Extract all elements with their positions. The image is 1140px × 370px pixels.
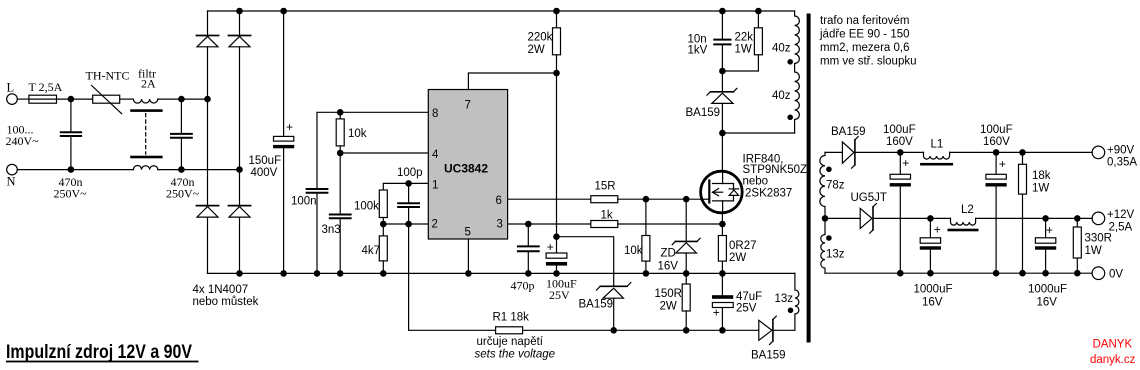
resistor 100k — [379, 190, 387, 224]
svg-text:mm2, mezera 0,6: mm2, mezera 0,6 — [820, 42, 909, 54]
svg-text:N: N — [7, 175, 16, 189]
svg-text:150uF: 150uF — [249, 155, 282, 167]
node +12V terminal — [1092, 212, 1105, 225]
junction 100p pin1 — [405, 180, 412, 187]
junction pin7-220k — [553, 70, 560, 77]
wire pin7 — [468, 73, 556, 90]
junction N-bridge — [236, 166, 243, 173]
node N terminal — [7, 164, 18, 175]
svg-text:100p: 100p — [397, 167, 423, 179]
svg-text:DANYK: DANYK — [1093, 339, 1133, 351]
transistor Q1 IRF840 — [701, 171, 743, 213]
svg-text:L1: L1 — [931, 139, 944, 151]
wire pin5 — [467, 239, 469, 273]
svg-text:150R: 150R — [655, 288, 683, 300]
resistor 10k (gate-gnd) — [642, 199, 650, 273]
svg-text:250V~: 250V~ — [54, 187, 88, 201]
wire L1 to +90V terminal — [950, 151, 1093, 153]
capacitor 100n — [307, 189, 328, 273]
svg-text:BA159: BA159 — [831, 126, 866, 138]
junction top 470n2 — [178, 96, 185, 103]
wire 13z junction to UG5JT — [825, 217, 860, 219]
polarity dot 40z lower — [787, 115, 793, 121]
resistor 15R (gate) — [591, 196, 701, 203]
svg-text:danyk.cz: danyk.cz — [1090, 354, 1136, 366]
junction 100p-fb — [405, 221, 412, 228]
aux winding 13z — [795, 273, 799, 330]
svg-text:určuje napětí: určuje napětí — [477, 336, 544, 348]
junction rail dots — [236, 8, 287, 277]
capacitor 470p — [518, 224, 539, 273]
polarity dot 78z — [826, 167, 832, 173]
svg-text:2,5A: 2,5A — [1109, 222, 1133, 234]
svg-text:15R: 15R — [595, 181, 616, 193]
svg-text:0V: 0V — [1109, 269, 1123, 281]
junction 470p top — [525, 221, 532, 228]
svg-text:mm ve stř. sloupku: mm ve stř. sloupku — [820, 56, 917, 68]
junction 10k gnd — [643, 270, 650, 277]
resistor 4k7 — [379, 224, 387, 273]
junction 1000uF#2 top — [1042, 215, 1049, 222]
junction source-1k — [719, 221, 726, 228]
svg-text:T 2,5A: T 2,5A — [29, 80, 63, 94]
svg-text:22k: 22k — [735, 32, 754, 44]
svg-text:470p: 470p — [511, 279, 535, 293]
polarity dot 40z upper — [787, 59, 793, 65]
diode BA159 (13z rectifier) — [759, 316, 795, 344]
diode D4 (bridge bottom-right) — [229, 170, 251, 274]
svg-text:2SK2837: 2SK2837 — [745, 188, 792, 200]
junction 3n3 top — [337, 150, 344, 157]
polarity dot sec 13z — [826, 235, 832, 241]
svg-text:BA159: BA159 — [751, 350, 786, 362]
svg-text:160V: 160V — [886, 136, 913, 148]
svg-text:8: 8 — [432, 108, 438, 120]
junction 0V dots — [897, 270, 1081, 277]
svg-text:4x 1N4007: 4x 1N4007 — [193, 284, 249, 296]
choke core dashed link — [145, 114, 147, 155]
svg-text:7: 7 — [465, 100, 471, 112]
junction 10n top rail — [719, 8, 726, 15]
svg-text:78z: 78z — [826, 180, 845, 192]
wire drain — [721, 133, 723, 172]
wire 0V rail — [825, 272, 1092, 274]
capacitor 1000uF 16V #2 — [1035, 218, 1056, 273]
wire Vcc vertical — [556, 73, 558, 253]
svg-text:1000uF: 1000uF — [914, 284, 953, 296]
junction N-470n — [68, 166, 75, 173]
transformer core — [807, 14, 811, 343]
svg-text:47uF: 47uF — [736, 291, 762, 303]
junction 22k top rail — [755, 8, 762, 15]
polarity dot aux 13z — [788, 308, 794, 314]
svg-text:+: + — [1046, 223, 1053, 237]
diode UG5JT (12V rectifier) — [860, 204, 876, 234]
svg-text:400V: 400V — [251, 167, 278, 179]
wire pin8 line — [317, 112, 428, 189]
junction 100k-4k7 — [380, 221, 387, 228]
junction 220k top rail — [553, 8, 560, 15]
junction 1000uF#1 top — [927, 215, 934, 222]
junction gate-ZD — [683, 196, 690, 203]
svg-text:+: + — [902, 156, 909, 170]
svg-text:40z: 40z — [772, 90, 791, 102]
junction bottom 470n2 — [178, 166, 185, 173]
svg-text:STP9NK50Z: STP9NK50Z — [743, 164, 808, 176]
junction 100uF#2 top — [993, 149, 1000, 156]
inductor L1 — [920, 152, 953, 165]
svg-text:1: 1 — [432, 180, 438, 192]
choke core bars — [130, 109, 162, 158]
junction snubber node — [719, 68, 726, 75]
svg-text:4: 4 — [432, 149, 439, 161]
svg-text:10k: 10k — [348, 128, 367, 140]
wire top rail — [208, 10, 795, 12]
svg-text:1W: 1W — [735, 44, 752, 56]
svg-text:1kV: 1kV — [688, 45, 708, 57]
junction L-bridge — [204, 96, 211, 103]
junction 4k7 gnd — [380, 270, 387, 277]
wire choke to node — [158, 98, 208, 100]
junction 78z-13z — [822, 215, 829, 222]
svg-text:+: + — [286, 120, 293, 134]
resistor R1 18k (feedback) — [409, 327, 759, 334]
wire feedback drop (pin2 to R1) — [408, 224, 410, 330]
svg-text:100k: 100k — [354, 201, 379, 213]
wire L2 to +12V terminal — [976, 217, 1093, 219]
junction drain node — [719, 130, 726, 137]
capacitor 470n #2 — [171, 99, 192, 170]
capacitor 3n3 — [330, 153, 351, 273]
wire drain to primary — [722, 132, 794, 134]
capacitor 100uF 160V #2 — [986, 152, 1007, 273]
IC U1 UC3842 body — [428, 90, 507, 240]
svg-text:3: 3 — [497, 219, 503, 231]
junction Vcc node — [553, 233, 560, 240]
wire pin4 line — [340, 152, 428, 154]
snubber capacitor 10n 1kV — [714, 11, 730, 71]
svg-text:sets the voltage: sets the voltage — [475, 349, 556, 361]
svg-text:160V: 160V — [983, 136, 1010, 148]
junction pin5 gnd — [465, 270, 472, 277]
resistor 150R 2W — [682, 273, 690, 330]
junction 470p gnd — [525, 270, 532, 277]
capacitor 100uF 160V #1 — [890, 152, 911, 273]
junction gate-10k — [643, 196, 650, 203]
secondary winding 13z — [821, 218, 825, 273]
wire +12V line — [873, 217, 951, 219]
svg-text:3n3: 3n3 — [322, 224, 341, 236]
diode BA159 (snubber clamp) — [707, 71, 737, 133]
resistor 10k (Vref divider) — [336, 112, 344, 153]
wire +90V line — [855, 151, 924, 153]
capacitor 47uF 25V — [712, 273, 733, 330]
svg-text:1000uF: 1000uF — [1028, 284, 1067, 296]
node +90V terminal — [1092, 146, 1105, 159]
svg-text:240V~: 240V~ — [6, 134, 40, 148]
svg-text:BA159: BA159 — [686, 107, 721, 119]
svg-text:1k: 1k — [601, 210, 613, 222]
svg-text:2W: 2W — [660, 301, 677, 313]
svg-text:+12V: +12V — [1107, 209, 1135, 221]
svg-text:4k7: 4k7 — [362, 245, 381, 257]
wire choke to bridge — [158, 169, 240, 171]
svg-text:2W: 2W — [528, 44, 545, 56]
svg-text:2A: 2A — [141, 77, 156, 91]
diode D3 (bridge bottom-left) — [197, 99, 219, 273]
svg-text:R1 18k: R1 18k — [493, 312, 530, 324]
wire bottom ground rail — [208, 272, 795, 274]
svg-text:16V: 16V — [658, 261, 679, 273]
wire pin3 line — [508, 223, 591, 225]
diode D1 (bridge top-left) — [197, 11, 219, 99]
junction 330R top — [1074, 215, 1081, 222]
svg-text:1W: 1W — [1032, 183, 1049, 195]
primary winding 40z upper — [795, 11, 800, 64]
zener ZD 16V — [672, 199, 700, 273]
diode D2 (bridge top-right) — [229, 11, 251, 170]
svg-text:16V: 16V — [922, 297, 943, 309]
snubber resistor 22k 1W — [722, 11, 762, 71]
wire L to fuse — [17, 98, 29, 100]
svg-text:L: L — [7, 81, 15, 95]
diode BA159 (Vcc rectifier) — [597, 283, 631, 331]
fuse F1 T2,5A — [29, 95, 57, 103]
svg-text:+: + — [934, 223, 941, 237]
svg-text:250V~: 250V~ — [166, 187, 200, 201]
junction 3n3 gnd — [337, 270, 344, 277]
svg-text:100uF: 100uF — [980, 124, 1013, 136]
resistor 220k 2W — [553, 11, 561, 73]
svg-text:UG5JT: UG5JT — [851, 192, 887, 204]
junction 18k top — [1019, 149, 1026, 156]
svg-text:UC3842: UC3842 — [444, 162, 488, 176]
junction ZD gnd — [683, 270, 690, 277]
svg-text:L2: L2 — [961, 204, 974, 216]
capacitor 100uF 25V — [546, 253, 567, 273]
svg-text:5: 5 — [465, 227, 471, 239]
svg-text:+: + — [999, 157, 1006, 171]
svg-text:25V: 25V — [736, 303, 757, 315]
svg-text:+: + — [547, 240, 554, 254]
svg-text:13z: 13z — [826, 249, 845, 261]
wire pin1 line — [383, 183, 428, 190]
junction 47uF fb — [719, 327, 726, 334]
diode BA159 (90V rectifier) — [842, 137, 858, 169]
svg-text:BA159: BA159 — [579, 299, 614, 311]
thermistor TH-NTC — [92, 85, 122, 113]
wire fuse to node — [57, 98, 93, 100]
svg-text:13z: 13z — [775, 293, 794, 305]
svg-text:nebo můstek: nebo můstek — [193, 296, 259, 308]
svg-text:2: 2 — [432, 219, 438, 231]
wire pin6 line — [508, 198, 591, 200]
choke bottom winding — [133, 166, 157, 170]
capacitor C-bulk 150uF 400V — [273, 11, 294, 273]
svg-text:TH-NTC: TH-NTC — [86, 69, 130, 83]
svg-text:jádře EE 90 - 150: jádře EE 90 - 150 — [819, 29, 910, 41]
resistor 1k (CS) — [591, 221, 722, 228]
svg-text:16V: 16V — [1037, 297, 1058, 309]
choke top winding (filtr 2A) — [133, 99, 157, 103]
svg-text:0R27: 0R27 — [729, 240, 757, 252]
wire pin2 line — [383, 223, 428, 225]
node 0V terminal — [1092, 267, 1105, 280]
svg-text:25V: 25V — [549, 288, 570, 302]
wire 78z to diode — [825, 151, 842, 153]
svg-text:+: + — [713, 306, 720, 320]
junction 100n gnd — [314, 270, 321, 277]
wire N to choke — [17, 169, 133, 171]
inductor L2 — [948, 218, 979, 231]
wire source — [721, 212, 723, 235]
junction 150R fb — [683, 327, 690, 334]
svg-text:0,35A: 0,35A — [1107, 157, 1137, 169]
junction 10k top — [337, 109, 344, 116]
svg-text:18k: 18k — [1032, 170, 1051, 182]
resistor 330R 1W — [1073, 218, 1081, 273]
svg-text:ZD: ZD — [661, 248, 676, 260]
svg-text:1W: 1W — [1085, 245, 1102, 257]
junction 100uF#1 top — [897, 149, 904, 156]
secondary winding 78z — [820, 152, 825, 218]
svg-text:2W: 2W — [729, 252, 746, 264]
capacitor 100p — [398, 183, 419, 224]
wire NTC to choke — [120, 98, 134, 100]
svg-text:40z: 40z — [772, 43, 791, 55]
svg-text:100n: 100n — [291, 196, 317, 208]
svg-text:330R: 330R — [1085, 233, 1113, 245]
svg-text:trafo na feritovém: trafo na feritovém — [820, 15, 909, 27]
resistor 0R27 2W — [718, 236, 726, 274]
svg-text:100uF: 100uF — [883, 124, 916, 136]
junction L-470n — [68, 96, 75, 103]
svg-text:+90V: +90V — [1107, 145, 1135, 157]
capacitor 470n #1 — [61, 99, 81, 170]
junction BA159 fb line — [610, 327, 617, 334]
junction 100uF gnd — [553, 270, 560, 277]
wire Vcc to BA159 — [557, 237, 614, 287]
primary winding 40z lower — [795, 64, 800, 134]
svg-text:10k: 10k — [624, 245, 643, 257]
node L terminal — [7, 94, 18, 105]
resistor 18k 1W (bleeder) — [1019, 152, 1027, 273]
svg-text:6: 6 — [496, 195, 502, 207]
capacitor 1000uF 16V #1 — [920, 218, 941, 273]
junction 0R27 gnd — [719, 270, 726, 277]
svg-text:Impulzní zdroj 12V a 90V: Impulzní zdroj 12V a 90V — [6, 342, 192, 363]
svg-text:220k: 220k — [528, 32, 553, 44]
svg-text:nebo: nebo — [743, 176, 769, 188]
